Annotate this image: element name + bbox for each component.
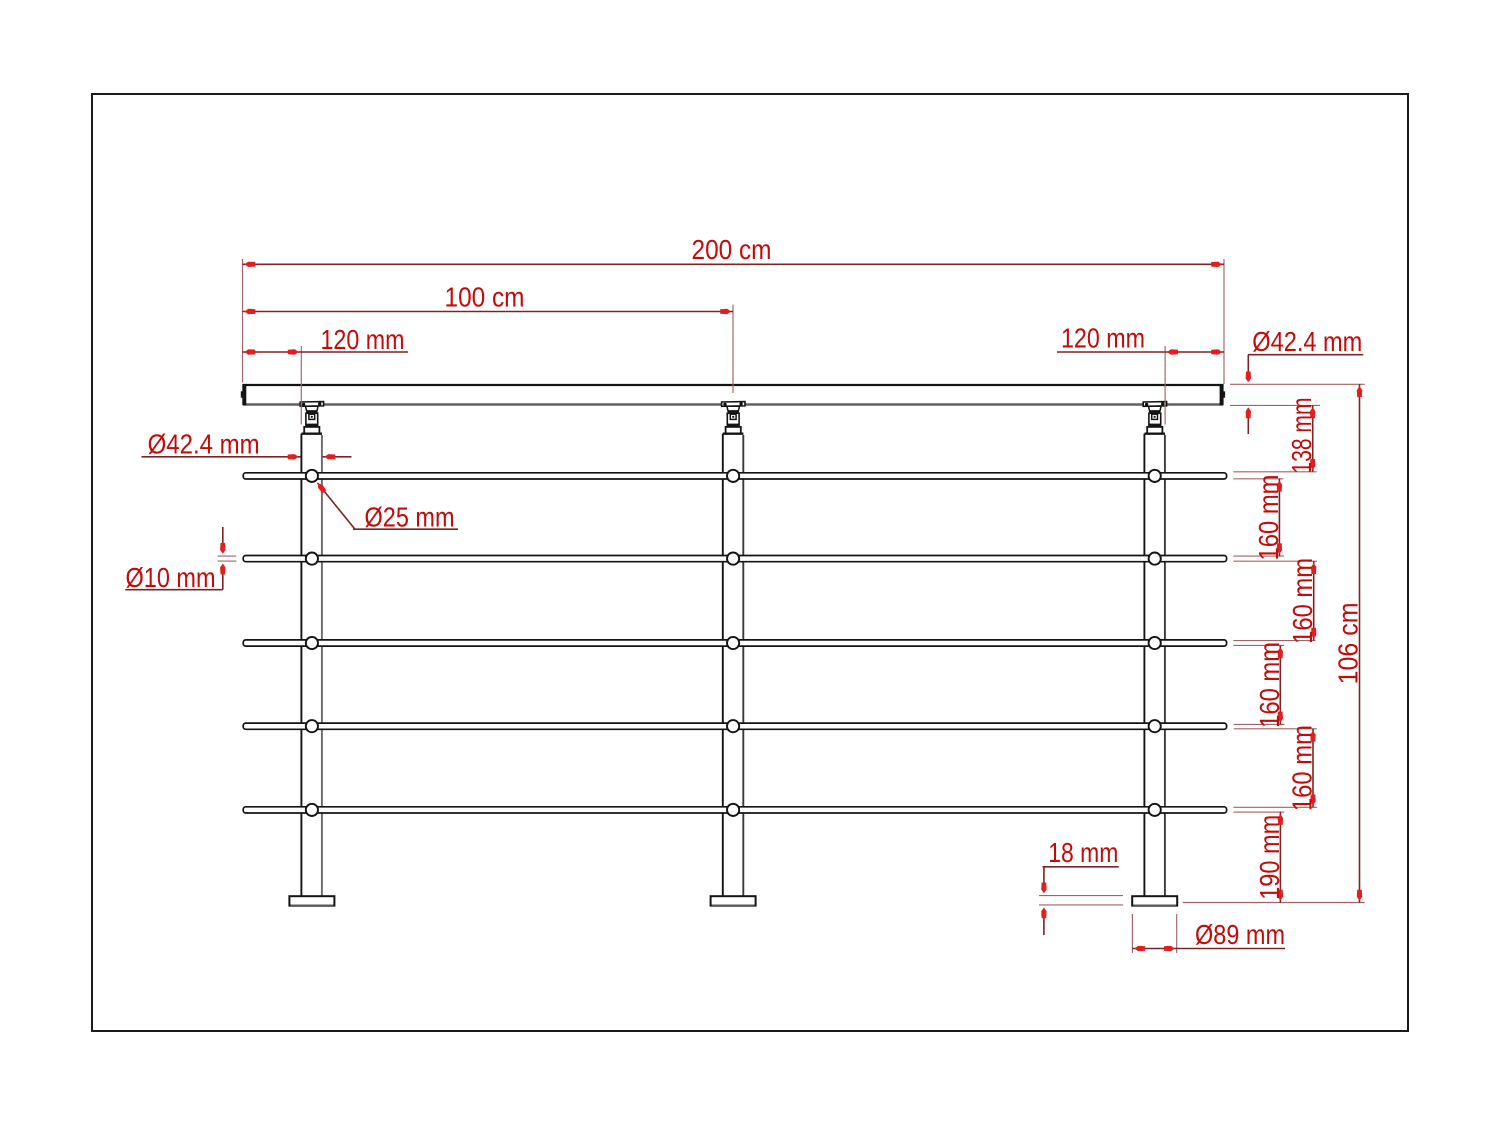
rail bar 4 — [243, 723, 1226, 729]
handrail bracket on left post — [300, 402, 323, 434]
dimension line 160 mm no.2 — [1313, 561, 1315, 640]
extension lines base plate 18mm — [1039, 895, 1123, 897]
arrows 160 mm no.1 — [1277, 481, 1282, 492]
svg-text:Ø42.4 mm: Ø42.4 mm — [1252, 326, 1362, 357]
rail holders right post — [1149, 470, 1161, 816]
extension lines base plate diameter — [1131, 914, 1133, 953]
arrows 120 mm right — [1167, 349, 1178, 354]
arrows 190 mm — [1278, 814, 1283, 825]
arrows 106 cm — [1357, 386, 1362, 397]
base plate right post — [1132, 896, 1177, 906]
extension lines rail 2 right — [1233, 555, 1284, 557]
svg-text:100 cm: 100 cm — [445, 282, 525, 313]
dimension line 138 mm — [1312, 405, 1314, 471]
arrows 160 mm no.4 — [1310, 731, 1315, 742]
svg-text:138 mm: 138 mm — [1286, 398, 1317, 474]
arrows diameter 10 — [220, 543, 225, 554]
svg-text:Ø42.4 mm: Ø42.4 mm — [148, 429, 260, 460]
dimension lines diameter 10 — [125, 589, 223, 591]
svg-text:18 mm: 18 mm — [1048, 837, 1118, 868]
arrows diameter 89 — [1134, 946, 1145, 951]
arrows 100 cm — [245, 309, 256, 314]
rail bar 5 — [243, 807, 1226, 813]
svg-text:120 mm: 120 mm — [1061, 323, 1145, 354]
border frame — [92, 94, 1408, 1031]
middle post — [723, 434, 744, 897]
extension line middle post centre — [732, 305, 734, 394]
arrow leader diameter 25 — [318, 483, 327, 493]
svg-text:160 mm: 160 mm — [1287, 558, 1318, 644]
dimension line diameter 89 — [1132, 948, 1285, 950]
dimension line 160 mm no.3 — [1279, 645, 1281, 724]
dimension line 120 mm left — [243, 351, 409, 353]
arrows 18 mm — [1041, 883, 1046, 894]
extension line handrail bottom right — [1230, 404, 1320, 406]
base plate left post — [289, 896, 334, 906]
left post — [301, 434, 322, 897]
dimension line 106 cm — [1359, 384, 1361, 902]
arrows 160 mm no.3 — [1278, 647, 1283, 658]
base plate middle post — [711, 896, 756, 906]
extension lines rail 4 right — [1234, 723, 1285, 725]
rail bar 2 — [243, 556, 1226, 562]
dimension line 100 cm — [243, 311, 734, 313]
arrows 160 mm no.2 — [1311, 563, 1316, 574]
dimension line diameter 42.4 right — [1248, 354, 1363, 356]
svg-text:106 cm: 106 cm — [1333, 602, 1364, 684]
extension lines rail 3 right — [1233, 640, 1315, 642]
dimension line 190 mm — [1279, 812, 1281, 902]
extension line right end of handrail — [1223, 259, 1225, 384]
extension lines rail 5 right — [1233, 806, 1317, 808]
svg-text:Ø10 mm: Ø10 mm — [126, 562, 216, 593]
handrail — [241, 384, 1225, 405]
extension line left post edge — [300, 346, 302, 425]
svg-text:160 mm: 160 mm — [1253, 475, 1284, 561]
svg-text:Ø89 mm: Ø89 mm — [1195, 919, 1285, 950]
extension line left end of handrail — [242, 259, 244, 383]
right post — [1144, 434, 1165, 897]
svg-text:160 mm: 160 mm — [1287, 725, 1318, 811]
extension line right post edge — [1164, 346, 1166, 425]
handrail bracket on right post — [1143, 402, 1166, 434]
arrows diameter 42.4 right — [1246, 372, 1251, 383]
svg-text:Ø25 mm: Ø25 mm — [365, 502, 455, 533]
dimension line 160 mm no.1 — [1278, 479, 1280, 556]
arrows diameter 42.4 left — [288, 454, 299, 459]
svg-text:200 cm: 200 cm — [692, 234, 772, 265]
dimension line diameter 42.4 left — [142, 456, 301, 458]
extension line handrail top right — [1230, 383, 1365, 385]
leader line diameter 25 — [318, 483, 356, 529]
svg-text:190 mm: 190 mm — [1254, 815, 1285, 900]
rail bar 3 — [243, 640, 1226, 646]
rail holders left post — [306, 470, 318, 816]
svg-text:160 mm: 160 mm — [1254, 642, 1285, 728]
extension ticks rail 2 left — [218, 555, 237, 557]
arrows 120 mm left — [245, 349, 256, 354]
dimension lines 18 mm — [1043, 866, 1119, 868]
dimension line 160 mm no.4 — [1312, 729, 1314, 808]
extension line base bottom right — [1183, 902, 1365, 904]
extension lines rail 1 right — [1233, 471, 1316, 473]
handrail bracket on middle post — [722, 402, 745, 434]
dimension line 200 cm — [243, 263, 1225, 265]
rail holders middle post — [727, 470, 739, 816]
rail bar 1 — [243, 473, 1226, 479]
arrows 138 mm — [1310, 407, 1315, 418]
dimension line 120 mm right — [1057, 351, 1224, 353]
arrows 200 cm — [245, 262, 256, 267]
svg-text:120 mm: 120 mm — [321, 324, 405, 355]
